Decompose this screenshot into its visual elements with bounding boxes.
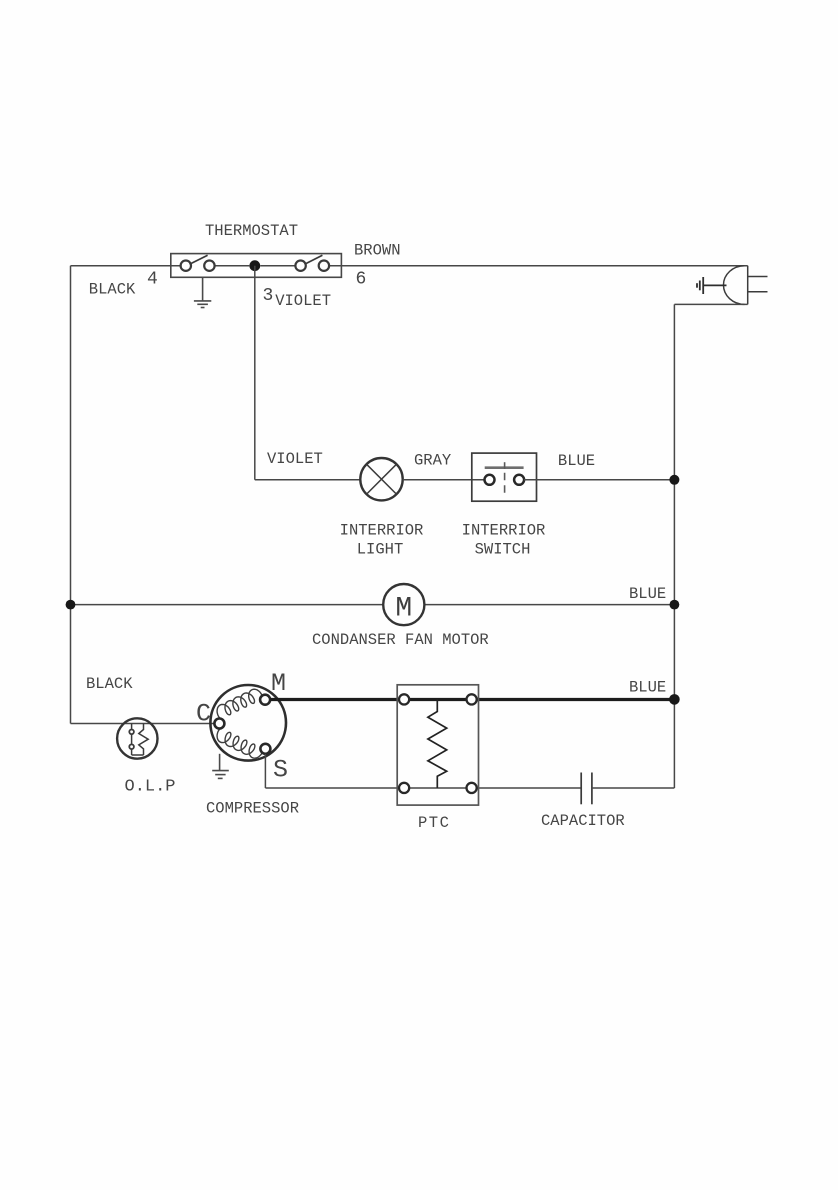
wire: S down: [264, 754, 266, 788]
svg-text:BLUE: BLUE: [558, 452, 595, 470]
wire: S row to capacitor: [265, 787, 581, 789]
svg-text:O.L.P: O.L.P: [125, 778, 176, 797]
svg-text:BROWN: BROWN: [354, 242, 401, 260]
PTC terminals: [399, 694, 477, 793]
svg-text:VIOLET: VIOLET: [275, 292, 331, 310]
compressor terminal M: [260, 695, 270, 705]
thermostat box: [171, 254, 342, 278]
svg-text:4: 4: [147, 270, 158, 290]
svg-text:CONDANSER FAN MOTOR: CONDANSER FAN MOTOR: [312, 631, 489, 649]
interior switch actuator bar: [485, 466, 524, 469]
thermostat contact circles: [181, 261, 329, 271]
wire: left horizontal to thermostat pin 4: [71, 265, 182, 267]
wire: lamp to interior switch (GRAY): [403, 479, 485, 481]
wire: fan motor row left: [71, 604, 384, 606]
interior switch dashed stem: [504, 473, 506, 495]
compressor coil lower winding: [217, 728, 263, 758]
interior light lamp: [360, 458, 402, 500]
node: junction dot fan row right: [670, 600, 680, 610]
svg-text:S: S: [273, 756, 288, 785]
wire: OLP row horizontal: [71, 723, 216, 725]
wire: switch to right vertical (BLUE): [524, 479, 675, 481]
svg-text:THERMOSTAT: THERMOSTAT: [205, 222, 298, 240]
ground: thermostat: [194, 277, 211, 307]
wire: fan motor row right (BLUE): [424, 604, 674, 606]
interior switch contacts: [485, 475, 525, 485]
compressor motor: [210, 685, 286, 761]
thermostat switch blade left: [190, 255, 208, 264]
ground: inside plug: [697, 277, 727, 294]
compressor terminal C: [214, 719, 224, 729]
svg-text:BLUE: BLUE: [629, 585, 666, 603]
svg-text:BLACK: BLACK: [89, 281, 136, 299]
ground: compressor: [212, 754, 229, 779]
wire: pin link left: [215, 265, 250, 267]
interior switch box: [472, 453, 537, 501]
svg-text:LIGHT: LIGHT: [357, 541, 404, 559]
thermostat switch blade right: [305, 255, 323, 264]
capacitor plates: [581, 773, 592, 805]
svg-text:M: M: [395, 594, 412, 625]
interior switch actuator tick: [504, 462, 506, 469]
svg-text:INTERRIOR: INTERRIOR: [462, 521, 546, 539]
svg-text:3: 3: [263, 286, 274, 306]
svg-text:CAPACITOR: CAPACITOR: [541, 812, 625, 830]
node: junction dot PTC row: [669, 694, 680, 705]
svg-text:PTC: PTC: [418, 814, 450, 832]
svg-text:BLACK: BLACK: [86, 675, 133, 693]
wire: M to PTC to junction (thick): [270, 698, 674, 701]
wire: violet vertical from pin 3: [254, 266, 256, 480]
svg-text:COMPRESSOR: COMPRESSOR: [206, 800, 299, 818]
wire: violet to interior light: [255, 479, 360, 481]
node: thermostat pin 3 junction dot: [249, 260, 260, 271]
compressor coil upper winding: [217, 689, 262, 718]
svg-text:GRAY: GRAY: [414, 452, 452, 470]
wire: capacitor to right vertical: [592, 787, 675, 789]
wire: left vertical (BLACK): [70, 266, 72, 724]
node: junction dot light row: [669, 475, 679, 485]
svg-text:INTERRIOR: INTERRIOR: [340, 521, 424, 539]
compressor terminal S: [260, 744, 270, 754]
PTC box: [397, 685, 478, 805]
wire: thermostat to plug (BROWN): [329, 265, 748, 267]
svg-text:6: 6: [356, 270, 367, 290]
svg-text:BLUE: BLUE: [629, 679, 666, 697]
svg-text:VIOLET: VIOLET: [267, 450, 323, 468]
wire: plug bottom to right vertical: [674, 303, 747, 305]
svg-text:C: C: [196, 700, 211, 729]
wire: pin link right: [260, 265, 295, 267]
wire: right vertical (down to capacitor row): [673, 304, 675, 788]
svg-text:SWITCH: SWITCH: [475, 541, 531, 559]
PTC resistor: [428, 699, 447, 788]
overload protector O.L.P: [117, 718, 157, 758]
plug P1: [723, 266, 767, 305]
condenser fan motor M1: [383, 584, 424, 625]
node: junction dot fan row left: [66, 600, 76, 610]
svg-text:M: M: [271, 669, 286, 698]
